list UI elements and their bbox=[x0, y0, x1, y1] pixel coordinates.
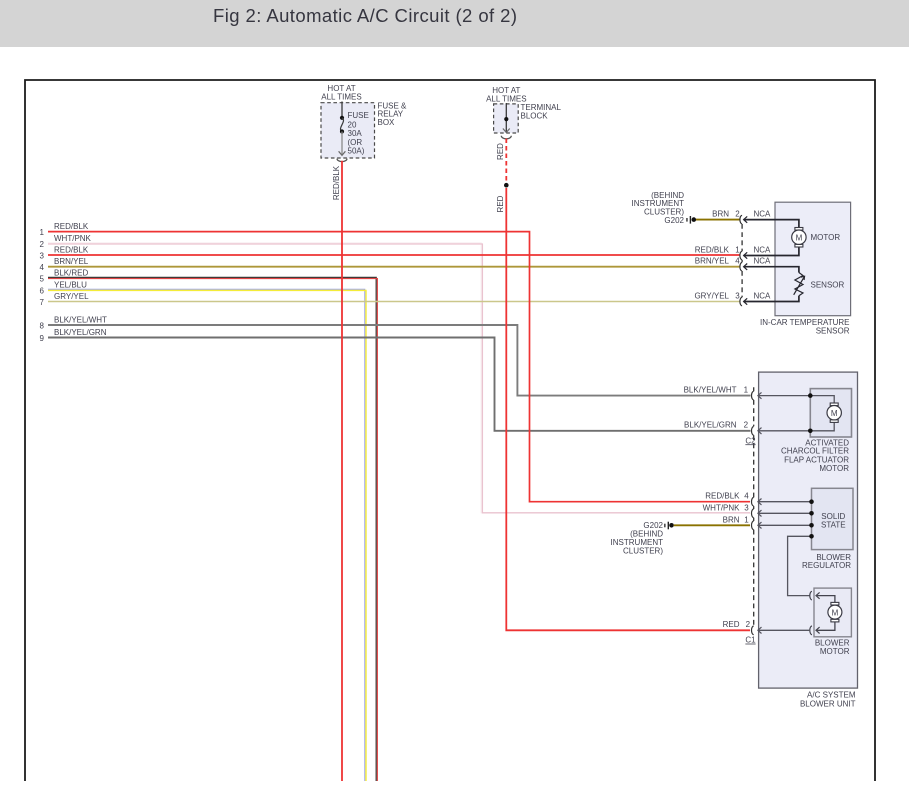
svg-text:4: 4 bbox=[735, 257, 740, 266]
svg-text:BRN/YEL: BRN/YEL bbox=[695, 257, 730, 266]
svg-text:BLK/YEL/WHT: BLK/YEL/WHT bbox=[54, 316, 107, 325]
fuse element bbox=[340, 116, 344, 120]
svg-text:RED/BLK: RED/BLK bbox=[332, 165, 341, 200]
svg-text:BLK/YEL/GRN: BLK/YEL/GRN bbox=[684, 421, 737, 430]
solid state pin 4 wire + arrow bbox=[758, 501, 812, 503]
svg-text:2: 2 bbox=[40, 240, 45, 249]
svg-text:FUSE: FUSE bbox=[348, 111, 369, 120]
motor M2 (actuator) bbox=[830, 403, 838, 406]
svg-text:RED/BLK: RED/BLK bbox=[54, 222, 89, 231]
svg-text:RED/BLK: RED/BLK bbox=[54, 246, 89, 255]
svg-text:SENSOR: SENSOR bbox=[816, 326, 850, 335]
title bar bbox=[0, 0, 909, 47]
svg-text:5: 5 bbox=[40, 275, 45, 284]
svg-text:STATE: STATE bbox=[821, 521, 846, 530]
svg-text:3: 3 bbox=[735, 292, 740, 301]
in-car temperature sensor box bbox=[775, 202, 851, 316]
svg-text:WHT/PNK: WHT/PNK bbox=[54, 234, 92, 243]
left rail wire 6 YEL/BLU bbox=[48, 289, 365, 781]
svg-text:M: M bbox=[796, 234, 803, 243]
wire RED dashed from terminal block bbox=[505, 139, 507, 182]
solid state pin 1 wire + arrow bbox=[758, 524, 812, 526]
svg-text:CHARCOL FILTER: CHARCOL FILTER bbox=[781, 447, 849, 456]
svg-text:BRN/YEL: BRN/YEL bbox=[54, 257, 89, 266]
sensor pin 3 wire + arrow bbox=[744, 296, 799, 302]
actuator inner box bbox=[810, 389, 851, 437]
sensor pin 2 wire + arrow bbox=[744, 220, 799, 228]
svg-text:RED: RED bbox=[496, 195, 505, 212]
svg-text:4: 4 bbox=[744, 492, 749, 501]
left rail wire 5 BLK/RED bbox=[48, 277, 376, 781]
actuator pin 2 wire + arrow bbox=[758, 423, 834, 431]
solid state output wire to blower motor bbox=[788, 536, 812, 595]
svg-text:NCA: NCA bbox=[754, 246, 772, 255]
junction dot bbox=[504, 183, 509, 188]
svg-text:REGULATOR: REGULATOR bbox=[802, 561, 851, 570]
svg-text:1: 1 bbox=[744, 515, 749, 524]
connector arcs sensor pins bbox=[740, 215, 742, 224]
svg-text:M: M bbox=[832, 609, 839, 618]
svg-text:G202: G202 bbox=[664, 216, 684, 225]
svg-text:RED/BLK: RED/BLK bbox=[705, 492, 740, 501]
left rail wire 1 RED/BLK bbox=[48, 232, 750, 502]
svg-text:1: 1 bbox=[40, 228, 45, 237]
svg-text:1: 1 bbox=[744, 386, 749, 395]
svg-text:6: 6 bbox=[40, 287, 45, 296]
fuse & relay box bbox=[321, 103, 375, 158]
svg-text:8: 8 bbox=[40, 322, 45, 331]
svg-text:MOTOR: MOTOR bbox=[811, 233, 841, 242]
arrow out of fuse box bbox=[339, 151, 346, 155]
terminal block bbox=[494, 104, 519, 133]
left rail wire 3 RED/BLK bbox=[48, 254, 740, 256]
svg-text:INSTRUMENT: INSTRUMENT bbox=[611, 538, 664, 547]
wire BRN to solid state pin 1 bbox=[674, 524, 750, 526]
connector arc under fuse box bbox=[337, 159, 347, 162]
junction dots on solid state edge bbox=[809, 499, 814, 504]
svg-text:2: 2 bbox=[746, 620, 751, 629]
svg-text:GRY/YEL: GRY/YEL bbox=[54, 292, 89, 301]
left rail wire 4 BRN/YEL bbox=[48, 266, 740, 268]
svg-text:MOTOR: MOTOR bbox=[819, 464, 849, 473]
left rail wire 9 BLK/YEL/GRN bbox=[48, 338, 751, 431]
svg-text:BLK/YEL/GRN: BLK/YEL/GRN bbox=[54, 328, 107, 337]
wire BRN to sensor pin 2 bbox=[696, 219, 740, 221]
left rail wire 8 BLK/YEL/WHT bbox=[48, 325, 751, 396]
svg-text:C2: C2 bbox=[745, 436, 756, 445]
sensor pin 4 wire + arrow bbox=[744, 267, 799, 273]
svg-text:NCA: NCA bbox=[754, 257, 772, 266]
blower motor box bbox=[814, 588, 851, 637]
svg-text:NCA: NCA bbox=[754, 210, 772, 219]
svg-text:FLAP ACTUATOR: FLAP ACTUATOR bbox=[784, 455, 849, 464]
blower motor top pin arc + arrow bbox=[810, 591, 812, 600]
svg-text:WHT/PNK: WHT/PNK bbox=[703, 503, 741, 512]
svg-text:ALL TIMES: ALL TIMES bbox=[321, 93, 361, 102]
svg-text:4: 4 bbox=[40, 263, 45, 272]
connector arc under terminal block bbox=[501, 136, 511, 139]
solid state box bbox=[812, 488, 854, 549]
solid state pin 3 wire + arrow bbox=[758, 512, 812, 514]
terminal block lead bbox=[505, 103, 507, 132]
wire C1 to blower motor bbox=[758, 629, 810, 631]
motor M3 (blower) bbox=[831, 602, 839, 605]
svg-text:BLK/RED: BLK/RED bbox=[54, 269, 88, 278]
wire RED solid down to C1 bbox=[506, 188, 750, 630]
sensor pin 1 wire + arrow bbox=[744, 247, 799, 256]
svg-text:BRN: BRN bbox=[712, 210, 729, 219]
svg-text:CLUSTER): CLUSTER) bbox=[623, 547, 663, 556]
svg-text:C1: C1 bbox=[745, 636, 756, 645]
svg-text:SENSOR: SENSOR bbox=[811, 281, 845, 290]
wire RED/BLK from fuse box to bottom bbox=[341, 161, 343, 781]
svg-text:9: 9 bbox=[40, 334, 45, 343]
svg-text:NCA: NCA bbox=[754, 292, 772, 301]
left rail wire 7 GRY/YEL bbox=[48, 301, 740, 303]
junction dots on actuator box edge bbox=[808, 393, 813, 398]
svg-text:30A: 30A bbox=[348, 129, 363, 138]
connector arcs C2/C1 pins bbox=[752, 391, 754, 400]
svg-text:BLOWER UNIT: BLOWER UNIT bbox=[800, 700, 856, 709]
svg-text:BOX: BOX bbox=[378, 118, 396, 127]
sensor element (thermistor) bbox=[795, 273, 803, 296]
svg-text:GRY/YEL: GRY/YEL bbox=[694, 292, 729, 301]
svg-text:2: 2 bbox=[735, 210, 740, 219]
svg-text:YEL/BLU: YEL/BLU bbox=[54, 281, 87, 290]
svg-text:50A): 50A) bbox=[348, 147, 365, 156]
svg-text:3: 3 bbox=[744, 503, 749, 512]
svg-text:MOTOR: MOTOR bbox=[820, 647, 850, 656]
sensor connector dashed line bbox=[741, 224, 743, 297]
svg-text:BLK/YEL/WHT: BLK/YEL/WHT bbox=[684, 386, 737, 395]
svg-text:BRN: BRN bbox=[723, 515, 740, 524]
svg-text:1: 1 bbox=[735, 246, 740, 255]
fuse F 20A lead bbox=[341, 102, 343, 118]
svg-text:BLOCK: BLOCK bbox=[521, 111, 549, 120]
svg-text:A/C SYSTEM: A/C SYSTEM bbox=[807, 691, 856, 700]
svg-text:RED: RED bbox=[723, 620, 740, 629]
svg-text:SOLID: SOLID bbox=[821, 512, 845, 521]
svg-text:7: 7 bbox=[40, 298, 45, 307]
actuator pin 1 wire + arrow bbox=[758, 396, 834, 403]
motor M1 (in-car sensor) bbox=[795, 228, 803, 231]
svg-text:RED/BLK: RED/BLK bbox=[695, 246, 730, 255]
svg-text:M: M bbox=[831, 409, 838, 418]
blower motor bottom pin arc + arrow bbox=[810, 626, 812, 635]
arrow out of terminal block bbox=[503, 129, 510, 133]
C2/C1 connector dashed line bbox=[753, 387, 755, 626]
left rail wire 2 WHT/PNK bbox=[48, 243, 481, 513]
svg-text:2: 2 bbox=[744, 421, 749, 430]
svg-text:RED: RED bbox=[496, 143, 505, 160]
A/C system blower unit box bbox=[759, 372, 858, 688]
svg-text:3: 3 bbox=[40, 252, 45, 261]
